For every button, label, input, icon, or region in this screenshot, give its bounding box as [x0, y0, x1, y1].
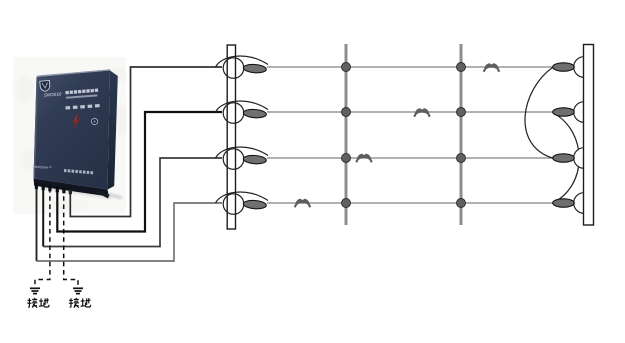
end insulator bump B1 [574, 57, 584, 78]
energizer box U1 : right side face [108, 71, 118, 190]
energizer box U1 : front face [34, 71, 111, 190]
shield logo [40, 80, 50, 91]
corner insulator hook H2 [216, 101, 269, 123]
dot P2-F2 [342, 108, 351, 117]
end insulator bump B4 [574, 193, 584, 214]
tension clip C2 [414, 108, 430, 116]
dot P3-F3 [457, 154, 466, 163]
corner insulator hook H4 [216, 192, 269, 214]
dot P3-F4 [457, 199, 466, 208]
lightning bolt [71, 114, 80, 129]
middle post P2 [345, 44, 348, 225]
corner insulator hook H1 [216, 56, 269, 78]
energizer box U1 : top face sliver [37, 69, 111, 77]
energizer shadow [40, 185, 112, 200]
wire W2 (zone 2 feed) [57, 112, 222, 232]
end insulator bump B2 [574, 102, 584, 123]
label 接地 (right) [69, 298, 79, 308]
dot P3-F1 [457, 63, 466, 72]
ground wire G2 (dashed) [64, 188, 78, 287]
end insulator bump B3 [574, 148, 584, 169]
dot P3-F2 [457, 108, 466, 117]
right post P4 [584, 45, 594, 226]
end jumper arc J1 (wire1 to wire3) [525, 68, 553, 159]
tension clip C1 [484, 63, 500, 71]
corner insulator hook H3 [216, 147, 269, 169]
ground symbol G2 [73, 288, 83, 293]
photo background patch [13, 57, 126, 214]
mounting bracket [34, 179, 109, 197]
fence wire F2 [267, 111, 553, 113]
ground wire G1 (dashed) [35, 188, 50, 287]
dot P2-F1 [342, 63, 351, 72]
product name line 2 (small) [66, 94, 98, 98]
fence wire F1 [267, 66, 553, 68]
fence wire F4 [267, 202, 553, 204]
bracket right foot [96, 189, 110, 199]
end insulator E1 [553, 63, 575, 71]
tension clip C4 [295, 199, 311, 207]
left post P1 [227, 45, 235, 229]
wire W1 (zone 1 feed) [70, 67, 222, 217]
tension clip C3 [356, 154, 372, 162]
round emblem [92, 118, 98, 124]
terminal studs [35, 183, 72, 194]
label 接地 (left) [27, 298, 37, 308]
indicator row [65, 104, 99, 110]
line insulator dots on posts [342, 63, 466, 208]
energizer box U1 : left edge highlight [34, 77, 39, 179]
ground symbol G1 [30, 288, 40, 293]
end insulator E2 [553, 108, 575, 116]
dot P2-F4 [342, 199, 351, 208]
fence wire F3 [267, 157, 553, 159]
company text bottom right (CJK blur) [64, 169, 93, 174]
wire W4 (zone 4 feed) [36, 188, 38, 261]
end insulator E3 [553, 154, 575, 162]
dot P2-F3 [342, 154, 351, 163]
product name line 1 (CJK blur) [65, 89, 98, 95]
end insulator E4 [553, 199, 575, 207]
middle post P3 [460, 44, 463, 225]
wire W3 (zone 3 feed) [42, 188, 44, 247]
end jumper arc J2 (wire2 to wire4) [553, 113, 580, 204]
